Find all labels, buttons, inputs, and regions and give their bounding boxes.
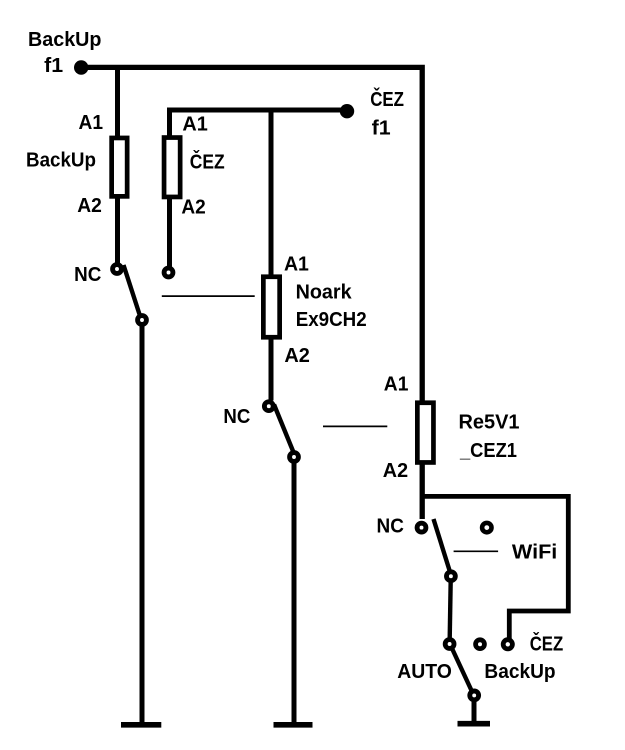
- switch contact 5: [470, 691, 479, 700]
- switch arm NC Re5V1: [434, 519, 451, 572]
- svg-text:NC: NC: [223, 406, 250, 428]
- svg-text:f1: f1: [372, 117, 391, 139]
- switch pivot NC2: [264, 402, 273, 411]
- svg-text:f1: f1: [44, 55, 63, 77]
- svg-text:WiFi: WiFi: [512, 542, 557, 564]
- ground 2: [274, 722, 313, 728]
- switch contact 4: [445, 640, 454, 649]
- terminal AUTO middle: [476, 640, 485, 649]
- relay coil CEZ: [164, 138, 180, 197]
- svg-text:ČEZ: ČEZ: [370, 87, 404, 111]
- switch arm AUTO: [453, 650, 472, 691]
- node CEZ f1: [340, 104, 354, 118]
- link line switch1: [162, 295, 255, 297]
- relay coil BackUp: [112, 138, 128, 196]
- svg-text:NC: NC: [377, 515, 404, 537]
- wire top bus from node f1 to right drop: [81, 67, 422, 519]
- link line switch2: [323, 425, 387, 427]
- wire switch2 to ground: [292, 459, 297, 722]
- switch arm NC Noark: [274, 405, 294, 454]
- wire between contacts: [450, 580, 451, 639]
- svg-text:_CEZ1: _CEZ1: [459, 440, 517, 462]
- switch contact 3: [447, 572, 456, 581]
- terminal CEZ coil A2: [164, 268, 173, 277]
- svg-text:A1: A1: [284, 254, 309, 276]
- svg-text:A2: A2: [383, 460, 408, 482]
- wire switch3 to ground: [472, 699, 477, 722]
- svg-text:ČEZ: ČEZ: [190, 149, 225, 173]
- svg-text:NC: NC: [74, 264, 101, 286]
- node BackUp f1: [74, 60, 88, 74]
- svg-text:BackUp: BackUp: [26, 149, 96, 171]
- switch pivot NC3: [417, 523, 426, 532]
- svg-text:Re5V1: Re5V1: [459, 411, 520, 433]
- wire BackUp coil lead (A1 side): [115, 65, 120, 265]
- switch contact 1 lower: [138, 316, 147, 325]
- link line switch3: [454, 550, 499, 552]
- svg-text:Noark: Noark: [296, 282, 353, 304]
- wire switch1 to ground: [140, 322, 145, 722]
- svg-text:ČEZ: ČEZ: [530, 632, 564, 656]
- wire Noark coil lead: [269, 108, 274, 401]
- terminal WiFi: [482, 523, 491, 532]
- switch arm NC BackUp: [124, 265, 142, 319]
- svg-text:A2: A2: [181, 197, 205, 219]
- svg-text:Ex9CH2: Ex9CH2: [296, 309, 367, 331]
- svg-text:A1: A1: [384, 373, 409, 395]
- svg-text:A1: A1: [182, 113, 207, 135]
- relay coil Re5V1_CEZ1: [417, 403, 433, 463]
- svg-text:A2: A2: [77, 195, 102, 217]
- terminal CEZ bottom: [503, 640, 512, 649]
- switch pivot NC1: [113, 265, 122, 274]
- svg-text:BackUp: BackUp: [28, 29, 102, 51]
- svg-text:AUTO: AUTO: [397, 661, 452, 683]
- svg-text:A2: A2: [284, 345, 310, 367]
- relay coil Noark Ex9CH2: [263, 277, 279, 338]
- svg-text:A1: A1: [79, 112, 104, 134]
- wire right branch to CEZ terminal: [422, 496, 568, 639]
- ground 1: [121, 722, 161, 728]
- svg-text:BackUp: BackUp: [484, 661, 555, 683]
- switch contact 2 lower: [290, 453, 299, 462]
- ground 3: [458, 721, 491, 727]
- wire CEZ bus to CEZ coil: [170, 110, 348, 267]
